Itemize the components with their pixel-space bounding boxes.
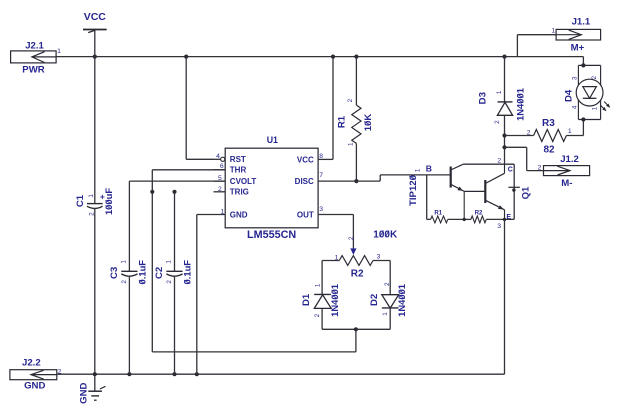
svg-text:B: B (426, 163, 432, 173)
svg-text:2: 2 (58, 368, 62, 375)
svg-text:0.1uF: 0.1uF (136, 260, 147, 285)
svg-text:1: 1 (166, 260, 173, 264)
svg-text:1N4001: 1N4001 (515, 88, 526, 121)
svg-text:2: 2 (497, 157, 501, 164)
svg-text:D2: D2 (369, 294, 380, 306)
svg-text:7: 7 (319, 172, 323, 179)
op-amp U1 LM555CN body (225, 135, 318, 241)
node VCC rail junction at C1 branch (93, 55, 97, 59)
svg-text:1: 1 (382, 312, 389, 316)
node Q1 emitter bottom junction (503, 218, 506, 221)
LED D4 (563, 65, 610, 119)
diode D1 1N4001 (301, 283, 340, 317)
wire D1 bottom (321, 308, 323, 329)
svg-text:2: 2 (538, 164, 542, 171)
node R3 branch junction (502, 133, 506, 137)
wire C2 riser to TRIG line (174, 192, 176, 271)
wire RST to VCC rail (186, 57, 213, 160)
svg-text:PWR: PWR (22, 65, 44, 76)
svg-text:GND: GND (230, 210, 248, 219)
transistor Q1 TIP120 package outline (408, 163, 532, 219)
svg-text:1N4001: 1N4001 (329, 284, 340, 317)
svg-text:0.1uF: 0.1uF (181, 260, 192, 285)
wire Q1 emitter to GND rail (504, 219, 506, 374)
svg-text:J2.1: J2.1 (25, 40, 44, 51)
svg-text:R1: R1 (336, 115, 347, 128)
wire C2 bottom to GND rail (174, 276, 176, 375)
svg-text:J1.1: J1.1 (572, 17, 591, 28)
VCC power symbol (83, 11, 107, 57)
wire VCC rail (top horizontal) (56, 56, 583, 58)
svg-text:RST: RST (230, 155, 246, 164)
node THR/TRIG junction (150, 190, 154, 194)
svg-text:1: 1 (348, 142, 355, 146)
svg-text:VCC: VCC (84, 11, 107, 23)
node D3 top junction (502, 55, 506, 59)
svg-text:CVOLT: CVOLT (230, 177, 257, 186)
wire VCC rail to C1 top (94, 57, 96, 204)
svg-text:1: 1 (551, 27, 555, 34)
wire CVOLT to C3 (129, 181, 225, 271)
svg-text:2: 2 (314, 313, 321, 317)
resistor R1 10K (336, 57, 373, 182)
svg-text:2: 2 (121, 280, 128, 284)
svg-text:1: 1 (57, 48, 61, 55)
svg-text:M-: M- (561, 178, 572, 189)
svg-text:3: 3 (572, 76, 579, 80)
svg-text:2: 2 (218, 186, 222, 193)
svg-text:C3: C3 (109, 267, 120, 279)
svg-text:THR: THR (230, 166, 247, 175)
svg-text:R2: R2 (351, 269, 364, 280)
node GND rail junction at C2 (172, 372, 176, 376)
wire D3 to Q1 collector (504, 115, 506, 164)
svg-text:100uF: 100uF (103, 188, 114, 215)
pin 8 VCC (297, 153, 333, 164)
wire THR/TRIG down to diode junction (152, 329, 356, 352)
wire rail to J1.1 (517, 35, 556, 57)
svg-text:8: 8 (319, 153, 323, 160)
diode D3 1N4001 (477, 88, 525, 124)
pin 5 CVOLT (214, 175, 257, 186)
Q1 right edge pin mark (508, 187, 520, 192)
node TRIG to C2 junction (172, 190, 176, 194)
node GND rail junction at C3 (127, 372, 131, 376)
svg-text:J2.2: J2.2 (22, 358, 41, 369)
wire C3 bottom to GND rail (128, 276, 130, 375)
node D4 top junction (581, 63, 585, 67)
ground symbol (78, 374, 105, 404)
svg-text:Q1: Q1 (520, 186, 531, 199)
wire D1-D2 bottom joining (322, 328, 390, 330)
pin 2 TRIG (214, 186, 249, 197)
connector J1.2 M- (538, 154, 590, 189)
svg-text:2: 2 (348, 236, 355, 240)
svg-text:2: 2 (384, 282, 391, 286)
svg-text:4: 4 (572, 105, 579, 109)
svg-text:TRIG: TRIG (230, 188, 249, 197)
capacitor C2 0.1uF (154, 260, 193, 285)
wire rail to D3 (504, 57, 506, 102)
svg-text:C1: C1 (75, 194, 86, 207)
node U1 VCC pin branch junction (331, 55, 335, 59)
resistor R1 internal of Q1 (431, 211, 448, 223)
wire to R3 (505, 135, 534, 137)
svg-text:6: 6 (220, 163, 224, 170)
node GND rail junction at C1 (93, 372, 97, 376)
svg-text:2: 2 (494, 120, 501, 124)
svg-text:GND: GND (78, 382, 89, 403)
wire U1 VCC pin riser (332, 57, 334, 160)
wire OUT to R2 wiper (352, 215, 354, 249)
svg-text:M+: M+ (571, 43, 585, 54)
node Q1 internal R1/R2 junction (463, 218, 466, 221)
pin 4 RST (active low bubble) (214, 153, 246, 164)
node R1 top junction (354, 55, 358, 59)
pin 3 OUT (297, 206, 353, 219)
connector J2.2 GND (10, 358, 62, 392)
connector J1.1 M+ (551, 17, 600, 54)
svg-text:1: 1 (221, 208, 225, 215)
wire D2 bottom (389, 308, 391, 329)
svg-text:2: 2 (591, 75, 598, 79)
svg-text:D1: D1 (301, 293, 312, 306)
transistor T2 inside Q1 (485, 164, 504, 219)
svg-text:LM555CN: LM555CN (247, 229, 296, 241)
svg-text:2: 2 (166, 280, 173, 284)
svg-text:1N4001: 1N4001 (396, 284, 407, 317)
svg-text:1: 1 (314, 283, 321, 287)
resistor R3 82 (527, 118, 572, 156)
wire C1 bottom to GND rail (94, 208, 96, 374)
node D4 bottom junction (581, 117, 585, 121)
pin 6 THR (214, 163, 247, 174)
wire THR left and down (152, 170, 225, 352)
svg-text:OUT: OUT (297, 210, 314, 219)
svg-text:J1.2: J1.2 (560, 154, 579, 165)
node GND rail junction at U1 GND (195, 372, 199, 376)
transistor T1 inside Q1 (451, 164, 486, 219)
resistor R2 internal of Q1 (471, 211, 486, 223)
svg-text:1: 1 (88, 194, 95, 198)
svg-text:D4: D4 (563, 89, 574, 102)
svg-text:R1: R1 (434, 211, 442, 217)
svg-text:1: 1 (568, 128, 572, 135)
wire GND rail (bottom horizontal) (57, 373, 505, 375)
svg-text:1: 1 (591, 106, 598, 110)
svg-text:3: 3 (497, 223, 501, 230)
svg-text:82: 82 (544, 145, 556, 156)
svg-text:3: 3 (319, 206, 323, 213)
svg-text:R3: R3 (542, 118, 555, 129)
svg-text:100K: 100K (373, 229, 398, 240)
wire collector to J1.2 (505, 147, 544, 170)
node J1.2 branch junction (502, 145, 506, 149)
node D1/D2 junction (354, 327, 358, 331)
wire DISC to Q1 base (356, 175, 450, 181)
svg-text:D3: D3 (477, 92, 488, 104)
svg-text:TIP120: TIP120 (408, 175, 419, 206)
svg-text:U1: U1 (267, 135, 278, 145)
svg-text:C: C (508, 166, 513, 173)
svg-text:1: 1 (496, 90, 503, 94)
pin 1 GND (197, 208, 248, 219)
wire R3 to D4 (566, 120, 583, 136)
diode D2 1N4001 (369, 282, 407, 317)
svg-text:DISC: DISC (295, 177, 314, 186)
connector J2.1 PWR (11, 40, 62, 75)
svg-text:2: 2 (527, 130, 531, 137)
svg-text:4: 4 (216, 153, 220, 160)
svg-text:1: 1 (120, 260, 127, 264)
Q1 pin labels (497, 157, 513, 230)
wire R2 pin3 to D2 (373, 261, 390, 295)
svg-text:1: 1 (415, 168, 422, 172)
svg-text:C2: C2 (154, 267, 165, 279)
svg-text:GND: GND (24, 381, 45, 392)
svg-text:3: 3 (377, 254, 381, 261)
svg-text:VCC: VCC (297, 156, 314, 165)
svg-text:2: 2 (347, 98, 354, 102)
svg-text:R2: R2 (475, 211, 483, 217)
capacitor C1 100uF (polarized) (75, 188, 114, 216)
node DISC/R1 junction (354, 179, 358, 183)
svg-text:10K: 10K (363, 114, 374, 132)
wire rail corner down to D4 (582, 57, 584, 66)
capacitor C3 0.1uF (109, 260, 148, 285)
node RST branch junction (184, 55, 188, 59)
wire R2 pin1 to D1 (322, 261, 339, 295)
svg-text:E: E (506, 214, 511, 221)
potentiometer R2 100K (335, 229, 398, 279)
pin 7 DISC (295, 172, 357, 186)
wire U1 GND pin down (196, 215, 198, 375)
